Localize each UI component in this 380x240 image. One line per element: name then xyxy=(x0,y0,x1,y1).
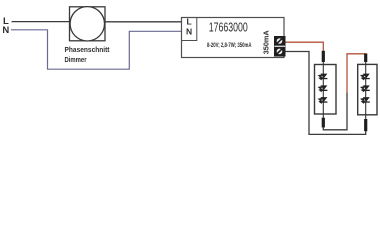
output terminal block xyxy=(274,36,286,57)
terminal cell divider xyxy=(274,46,285,47)
LED D2 xyxy=(318,85,328,92)
wire N mains to driver N (blue) xyxy=(11,30,182,69)
svg-text:17663000: 17663000 xyxy=(209,21,248,35)
LED module 2 conductor xyxy=(365,60,367,120)
svg-text:L: L xyxy=(187,17,192,27)
dimmer box xyxy=(70,7,106,41)
svg-text:8-20V; 2,8-7W; 350mA: 8-20V; 2,8-7W; 350mA xyxy=(207,42,252,49)
svg-text:Dimmer: Dimmer xyxy=(65,55,87,64)
LED D4 xyxy=(360,74,370,81)
svg-text:Phasenschnitt: Phasenschnitt xyxy=(65,45,111,54)
dimmer circle xyxy=(70,7,104,41)
terminal screw minus xyxy=(277,49,283,55)
LED module 2 body xyxy=(358,64,377,114)
wire driver plus to LED module 1 (red) xyxy=(286,42,324,52)
LED D5 xyxy=(360,85,370,92)
LED module 1 body xyxy=(315,65,337,115)
LED module 1 bottom lead pin xyxy=(322,118,325,128)
svg-text:350mA: 350mA xyxy=(262,30,271,54)
LED module 1 top lead pin xyxy=(322,51,325,62)
svg-text:N: N xyxy=(186,26,192,36)
LED module 2 top lead pin xyxy=(364,53,367,62)
LED D1 xyxy=(318,74,328,81)
LED module 1 conductor xyxy=(322,60,324,119)
wire dimmer to driver L xyxy=(105,21,182,23)
svg-text:N: N xyxy=(2,25,9,36)
driver input compartment divider xyxy=(182,18,197,41)
LED module 2 bottom lead pin xyxy=(364,119,367,131)
terminal screw plus xyxy=(277,38,283,44)
wire L mains to dimmer xyxy=(12,21,71,23)
LED D3 xyxy=(318,97,328,104)
LED D6 xyxy=(360,97,370,104)
wire module 1 minus to junction (black) xyxy=(323,93,347,130)
wire junction to module 2 plus (red) xyxy=(347,54,366,93)
wire driver minus return to LED module 2 (black) xyxy=(286,52,366,135)
LED driver U1 box xyxy=(182,18,285,58)
